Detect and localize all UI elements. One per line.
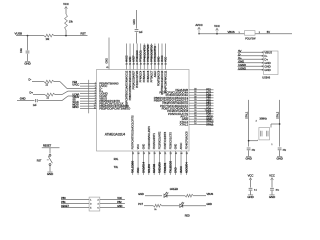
svg-text:VCC: VCC bbox=[165, 57, 168, 62]
svg-text:PF5/ADC5/TMS: PF5/ADC5/TMS bbox=[147, 44, 150, 62]
svg-text:GND: GND bbox=[174, 167, 178, 173]
svg-text:RESET: RESET bbox=[43, 144, 52, 147]
svg-text:PD0/OC0B/SCL/INT0: PD0/OC0B/SCL/INT0 bbox=[148, 125, 151, 149]
svg-text:PB6/PCINT6/OC1B/ADC13: PB6/PCINT6/OC1B/ADC13 bbox=[129, 70, 132, 100]
junction bbox=[27, 35, 29, 37]
svg-text:35: 35 bbox=[157, 64, 159, 66]
svg-text:PC7: PC7 bbox=[138, 203, 143, 206]
chip top pin 23 GND bbox=[129, 44, 131, 70]
chip pin 1 PE6/INT6/AIN0 bbox=[80, 83, 97, 85]
chip pin 9 PB1/PCINT1/SCLK bbox=[80, 103, 97, 105]
wire gnd bus bbox=[88, 80, 90, 114]
svg-text:TXLED/D5: TXLED/D5 bbox=[168, 160, 172, 173]
svg-text:GND: GND bbox=[138, 193, 144, 196]
svg-text:PF6/ADC6/TDO: PF6/ADC6/TDO bbox=[150, 45, 153, 62]
svg-text:UGND: UGND bbox=[238, 63, 246, 67]
chip bottom pin 22 PD5/XCK1/CTS bbox=[169, 151, 171, 175]
svg-text:PB1: PB1 bbox=[61, 201, 66, 204]
svg-text:44: 44 bbox=[180, 153, 182, 155]
svg-text:RXD1/D0: RXD1/D0 bbox=[158, 162, 162, 173]
svg-text:PD4/ICP1/ADC8: PD4/ICP1/ADC8 bbox=[185, 131, 188, 149]
fuse F1 POLYSW bbox=[245, 31, 256, 36]
svg-text:RXLED/B0: RXLED/B0 bbox=[131, 160, 135, 173]
svg-text:GND: GND bbox=[157, 56, 160, 62]
svg-text:VCC: VCC bbox=[214, 24, 220, 28]
svg-text:GND: GND bbox=[207, 203, 213, 206]
svg-text:RST: RST bbox=[81, 31, 87, 35]
chip top pin 42 AREF bbox=[133, 44, 135, 70]
svg-text:VUSB: VUSB bbox=[15, 32, 23, 36]
svg-text:RST: RST bbox=[37, 160, 42, 163]
chip bottom pin 20 PD2/RXD1/INT2 bbox=[159, 151, 161, 175]
svg-text:VCC: VCC bbox=[248, 174, 254, 178]
connector ISP header bbox=[89, 197, 100, 211]
chip pin 31 PC6/OC3A/OC4A bbox=[189, 94, 199, 96]
wire bbox=[65, 9, 67, 14]
chip bottom pin 25 PD4/ICP1/ADC8 bbox=[185, 151, 187, 175]
chip pin 33 PE2/HWB bbox=[189, 89, 199, 91]
chip pin 17 XTAL2 bbox=[189, 121, 199, 123]
wire bbox=[54, 35, 88, 37]
capacitor C6 0.1 bbox=[249, 187, 253, 189]
svg-text:19: 19 bbox=[153, 153, 155, 155]
chip pin 22 PD5/XCK1/CTS bbox=[189, 113, 199, 115]
svg-text:AVCC: AVCC bbox=[161, 55, 164, 62]
capacitor C7 10u bbox=[270, 187, 274, 189]
wire net PD5 bbox=[199, 113, 214, 115]
svg-text:XTAL1: XTAL1 bbox=[206, 123, 214, 126]
chip bottom pin 12 PB7/PCINT7/OC0A/OC1C/RTS bbox=[132, 151, 134, 175]
svg-text:MISO: MISO bbox=[72, 106, 78, 109]
chip top pin 36 PF7/ADC7/TDI bbox=[154, 44, 156, 70]
wire net PE2 bbox=[199, 89, 214, 91]
svg-text:TXL: TXL bbox=[114, 166, 119, 169]
svg-text:20: 20 bbox=[159, 153, 161, 155]
svg-text:VCC: VCC bbox=[117, 197, 122, 200]
chip pin 10 PB2/PDI/PCINT2/MOSI bbox=[80, 105, 97, 107]
svg-text:AVCC: AVCC bbox=[179, 166, 183, 173]
svg-text:100n: 100n bbox=[21, 47, 23, 53]
capacitor C4 22p bbox=[247, 147, 251, 149]
svg-text:GND: GND bbox=[117, 205, 122, 208]
wire usb pin 2 bbox=[238, 55, 264, 57]
svg-text:AREF: AREF bbox=[133, 55, 136, 62]
svg-text:PD1/SDA/INT1: PD1/SDA/INT1 bbox=[153, 132, 156, 149]
svg-text:AVCC: AVCC bbox=[126, 55, 129, 62]
svg-text:24: 24 bbox=[125, 64, 127, 66]
svg-text:VCC: VCC bbox=[136, 167, 140, 173]
svg-text:PF6/ADC6: PF6/ADC6 bbox=[147, 70, 150, 82]
chip pin 4 D+ bbox=[80, 90, 97, 92]
chip pin 30 PB6/PCINT6/OC1B/ADC13 bbox=[189, 97, 199, 99]
svg-text:GND: GND bbox=[264, 68, 270, 72]
wire net PD6 bbox=[199, 107, 214, 109]
chip pin 26 PD6/T1/OC4D/ADC9 bbox=[189, 107, 199, 109]
wire net PB4 bbox=[199, 102, 214, 104]
svg-text:13: 13 bbox=[143, 153, 145, 155]
svg-text:GND: GND bbox=[24, 61, 30, 65]
svg-text:PF7/ADC7: PF7/ADC7 bbox=[150, 70, 153, 82]
svg-text:VCC: VCC bbox=[137, 144, 140, 149]
svg-text:PF4/ADC4/TCK: PF4/ADC4/TCK bbox=[143, 45, 146, 62]
svg-text:45: 45 bbox=[106, 67, 108, 69]
svg-text:34: 34 bbox=[161, 64, 163, 66]
svg-text:PB7/PCINT7/OC0A/OC1C/RTS: PB7/PCINT7/OC0A/OC1C/RTS bbox=[132, 115, 135, 149]
chip pin 7 VBUS bbox=[80, 98, 97, 100]
svg-text:39: 39 bbox=[143, 64, 145, 66]
chip bottom pin 18 PD0/OC0B/SCL/INT0 bbox=[148, 151, 150, 175]
svg-text:PB4/PCINT4/ADC11: PB4/PCINT4/ADC11 bbox=[165, 70, 168, 93]
wire net AVCC bbox=[199, 116, 214, 118]
ground bbox=[246, 156, 251, 158]
chip top pin 14 VCC bbox=[165, 44, 167, 70]
svg-text:VBUS: VBUS bbox=[207, 193, 214, 196]
chip pin 24 AVCC bbox=[189, 116, 199, 118]
chip top pin 38 PF5/ADC5/TMS bbox=[147, 44, 149, 70]
svg-text:TXD1/D1: TXD1/D1 bbox=[163, 162, 167, 173]
svg-text:GND: GND bbox=[20, 97, 26, 101]
chip pin 25 PD4/ICP1/ADC8 bbox=[189, 110, 199, 112]
chip pin 16 XTAL1 bbox=[189, 124, 199, 126]
svg-text:SDA/D2: SDA/D2 bbox=[152, 163, 156, 173]
wire isp row 1 bbox=[61, 199, 89, 201]
svg-text:PB2: PB2 bbox=[117, 201, 122, 204]
svg-text:GREEN: GREEN bbox=[170, 188, 179, 191]
svg-text:UGND: UGND bbox=[238, 66, 246, 70]
svg-text:RED: RED bbox=[185, 214, 190, 217]
svg-text:GND: GND bbox=[276, 157, 282, 161]
chip bottom pin 14 VCC bbox=[137, 151, 139, 175]
svg-text:GND/D14: GND/D14 bbox=[141, 161, 145, 173]
wire net GND bbox=[199, 118, 214, 120]
wire GND stub pin45 bbox=[108, 38, 110, 70]
chip pin 11 PB3/PDO/PCINT3/MISO bbox=[80, 108, 97, 110]
svg-text:XTAL1: XTAL1 bbox=[246, 111, 249, 119]
chip top pin 37 PF6/ADC6/TDO bbox=[150, 44, 152, 70]
resistor R5 bbox=[185, 194, 193, 197]
svg-text:23: 23 bbox=[129, 64, 131, 66]
chip bottom pin 21 PD3/TXD1/INT3 bbox=[164, 151, 166, 175]
LED2 bbox=[180, 202, 184, 207]
chip top pin 24 AVCC bbox=[126, 44, 128, 70]
svg-text:GND: GND bbox=[47, 172, 53, 176]
chip pin 3 D- bbox=[80, 88, 97, 90]
chip pin 29 PB5/PCINT5/OC1A/ADC12 bbox=[189, 99, 199, 101]
chip top pin 41 PF0/ADC0 bbox=[136, 44, 138, 70]
svg-text:PF0/ADC0: PF0/ADC0 bbox=[136, 50, 139, 62]
chip top pin 35 GND bbox=[157, 44, 159, 70]
svg-text:D-: D- bbox=[29, 78, 32, 82]
chip top pin 39 PF4/ADC4/TCK bbox=[143, 44, 145, 70]
svg-text:D+: D+ bbox=[30, 91, 34, 95]
chip pin 32 PC7/ICP3/CLK0/OC4A bbox=[189, 91, 199, 93]
chip pin 28 PB4/PCINT4/ADC11 bbox=[189, 102, 199, 104]
svg-text:XTAL1: XTAL1 bbox=[180, 123, 189, 127]
svg-text:GND: GND bbox=[129, 56, 132, 62]
wire XTAL2 bbox=[279, 100, 281, 147]
svg-text:PB5/PCINT5/OC1A/OC4B/ADC12: PB5/PCINT5/OC1A/OC4B/ADC12 bbox=[126, 70, 129, 107]
junction bbox=[65, 35, 67, 37]
svg-text:PD3/TXD1/INT3: PD3/TXD1/INT3 bbox=[164, 131, 167, 149]
svg-text:PF7/ADC7/TDI: PF7/ADC7/TDI bbox=[154, 46, 157, 62]
wire diagonal jog right side bbox=[205, 108, 210, 116]
svg-text:RESET: RESET bbox=[61, 205, 69, 208]
svg-text:36: 36 bbox=[154, 64, 156, 66]
resistor R1 10k bbox=[65, 14, 68, 30]
svg-text:5V: 5V bbox=[238, 49, 241, 53]
ground bbox=[269, 194, 274, 196]
svg-text:25: 25 bbox=[186, 153, 188, 155]
wire usb pin 5 bbox=[238, 65, 264, 67]
svg-text:UVCC: UVCC bbox=[72, 84, 79, 87]
svg-text:GND: GND bbox=[238, 59, 244, 63]
svg-text:GND: GND bbox=[247, 195, 253, 199]
wire XTAL1 bbox=[248, 100, 250, 147]
svg-text:22: 22 bbox=[170, 153, 172, 155]
svg-text:GND: GND bbox=[142, 144, 145, 150]
svg-text:PF0/ADC0/AREF: PF0/ADC0/AREF bbox=[133, 70, 136, 89]
svg-text:PF5/ADC5: PF5/ADC5 bbox=[143, 70, 146, 82]
wire usb pin 4 bbox=[238, 62, 264, 64]
capacitor C5 22p bbox=[278, 147, 282, 149]
ground bbox=[248, 194, 253, 196]
svg-text:38: 38 bbox=[147, 64, 149, 66]
resistor R6 1k bbox=[153, 204, 161, 207]
chip pin 8 PB0/SS/PCINT0 bbox=[80, 100, 97, 102]
chip bottom pin 13 GND bbox=[142, 151, 144, 175]
wire net XTAL2 bbox=[199, 121, 214, 123]
chip bottom pin 19 PD1/SDA/INT1 bbox=[153, 151, 155, 175]
svg-text:AVCC: AVCC bbox=[195, 23, 202, 27]
LED1 bbox=[164, 192, 168, 197]
svg-text:PF1/ADC1/TMS: PF1/ADC1/TMS bbox=[136, 70, 139, 88]
wire net PB6 bbox=[199, 97, 214, 99]
svg-text:40: 40 bbox=[140, 64, 142, 66]
chip pin 23 GND bbox=[189, 118, 199, 120]
chip pin 6 UCAP bbox=[80, 95, 97, 97]
resistor R2 10k bbox=[44, 34, 54, 37]
svg-text:GND: GND bbox=[269, 195, 275, 199]
chip pin 5 UGND bbox=[80, 93, 97, 95]
wire net PB5 bbox=[199, 99, 214, 101]
svg-text:PB3: PB3 bbox=[61, 197, 66, 200]
svg-text:XTAL2: XTAL2 bbox=[277, 111, 280, 119]
wire net PC6 bbox=[199, 94, 214, 96]
svg-text:VCC: VCC bbox=[63, 2, 69, 6]
svg-text:PD6/T1/ADC9: PD6/T1/ADC9 bbox=[157, 70, 160, 86]
svg-text:21: 21 bbox=[164, 153, 166, 155]
svg-text:PF4/ADC4: PF4/ADC4 bbox=[140, 70, 143, 82]
svg-text:GND: GND bbox=[133, 19, 136, 25]
svg-text:14: 14 bbox=[165, 64, 167, 66]
svg-text:ATMEGA32U4: ATMEGA32U4 bbox=[105, 133, 126, 137]
svg-text:41: 41 bbox=[136, 64, 138, 66]
svg-text:VCC: VCC bbox=[269, 174, 275, 178]
wire net XTAL1 bbox=[199, 124, 214, 126]
svg-text:43: 43 bbox=[175, 153, 177, 155]
svg-text:D+: D+ bbox=[238, 56, 242, 60]
svg-text:12: 12 bbox=[132, 153, 134, 155]
svg-text:37: 37 bbox=[150, 64, 152, 66]
wire isp row 2 bbox=[61, 203, 89, 205]
svg-text:SCL/D3: SCL/D3 bbox=[147, 164, 151, 173]
svg-text:VBUS: VBUS bbox=[228, 30, 235, 34]
wire usb pin 6 bbox=[238, 69, 264, 71]
wire 5V rail bbox=[199, 33, 292, 35]
chip pin 2 UVCC bbox=[80, 85, 97, 87]
wire net PD7 bbox=[199, 105, 214, 107]
chip top pin 40 PF1/ADC1 bbox=[140, 44, 142, 70]
svg-text:POLYSW: POLYSW bbox=[245, 37, 256, 40]
chip top pin 34 AVCC bbox=[161, 44, 163, 70]
wire usb pin 3 bbox=[238, 58, 264, 60]
svg-text:1uF: 1uF bbox=[139, 32, 143, 34]
chip pin 27 PD7/T0/OC4D/ADC10 bbox=[189, 105, 199, 107]
svg-text:GND: GND bbox=[175, 144, 178, 150]
svg-text:AREF: AREF bbox=[154, 70, 157, 77]
wire RESET rail bbox=[16, 35, 44, 37]
svg-text:42: 42 bbox=[133, 64, 135, 66]
wire bbox=[65, 30, 67, 36]
svg-text:USB-B: USB-B bbox=[262, 75, 270, 79]
svg-text:D-: D- bbox=[238, 52, 241, 56]
wire net PD4 bbox=[199, 110, 214, 112]
svg-text:14: 14 bbox=[137, 153, 139, 155]
chip U1 ATMEGA32U4 body bbox=[97, 70, 190, 152]
connector USB-B bbox=[264, 51, 279, 75]
svg-text:GND: GND bbox=[105, 58, 108, 64]
ground bbox=[47, 171, 52, 173]
svg-text:PD2/RXD1/INT2: PD2/RXD1/INT2 bbox=[159, 131, 162, 149]
wire isp row 3 bbox=[61, 207, 89, 209]
svg-text:1uF: 1uF bbox=[33, 105, 37, 107]
svg-text:5V: 5V bbox=[267, 30, 270, 34]
wire usb pin 1 bbox=[238, 51, 264, 53]
svg-text:PD7/T0/OC4D/ADC10: PD7/T0/OC4D/ADC10 bbox=[161, 70, 164, 95]
capacitor C1 100n bbox=[27, 36, 29, 51]
chip bottom pin 43 GND bbox=[175, 151, 177, 175]
svg-text:AVCC: AVCC bbox=[180, 142, 183, 149]
svg-text:16MHz: 16MHz bbox=[259, 118, 267, 121]
svg-text:PD5/XCK1/CTS: PD5/XCK1/CTS bbox=[169, 132, 172, 150]
ground bbox=[25, 61, 30, 63]
chip bottom pin 44 AVCC bbox=[180, 151, 182, 175]
svg-text:GND: GND bbox=[245, 157, 251, 161]
svg-text:RXL: RXL bbox=[114, 158, 119, 161]
capacitor C2 1u bbox=[136, 10, 138, 29]
svg-text:ADC8/D4: ADC8/D4 bbox=[184, 162, 188, 173]
svg-text:PF1/ADC1: PF1/ADC1 bbox=[140, 50, 143, 62]
wire net PC7 bbox=[199, 91, 214, 93]
ground bbox=[277, 156, 282, 158]
svg-text:18: 18 bbox=[148, 153, 150, 155]
